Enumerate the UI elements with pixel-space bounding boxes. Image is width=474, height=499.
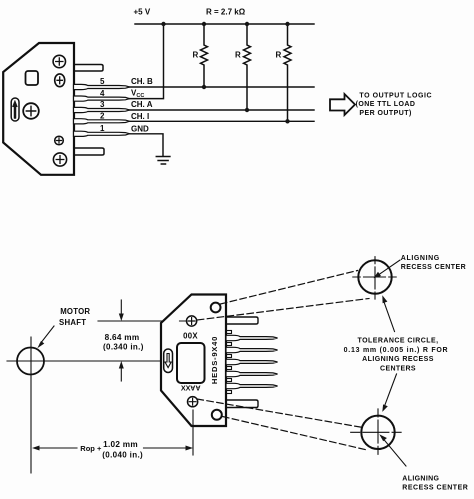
arrow: bottom aligning label to center (383, 439, 406, 467)
dashed leader C (197, 399, 363, 428)
center screw circle (23, 103, 39, 119)
svg-text:5: 5 (100, 77, 105, 86)
svg-text:R: R (193, 51, 199, 60)
code window rounded rect (177, 343, 205, 383)
svg-text:CH. B: CH. B (131, 77, 153, 86)
wire GND (129, 134, 163, 156)
pin 4 (74, 96, 130, 101)
dim Rop line right (146, 447, 185, 449)
motor shaft circle (17, 348, 44, 375)
junction R3 top / rail (285, 22, 289, 26)
module index square (26, 71, 39, 85)
wire CH.I (129, 120, 314, 122)
pin a (226, 335, 278, 340)
svg-text:PER OUTPUT): PER OUTPUT) (359, 110, 411, 117)
tolerance circle top (358, 260, 391, 293)
ground (156, 157, 170, 165)
screw hole bottom1 (55, 136, 64, 145)
shaft centerline vertical (30, 337, 32, 473)
arrow: top aligning label to center (379, 260, 400, 275)
tolerance circle bottom (361, 416, 394, 449)
flat pin bottom (226, 400, 258, 408)
svg-text:RECESS CENTER: RECESS CENTER (402, 484, 468, 491)
svg-text:CENTERS: CENTERS (380, 365, 416, 372)
junction R3 / CH.I (285, 119, 289, 123)
wire CH.B (129, 86, 314, 88)
svg-text:(0.040 in.): (0.040 in.) (102, 451, 143, 460)
pin 1 (74, 131, 130, 136)
recess + bottom (188, 397, 198, 407)
svg-text:TO OUTPUT LOGIC: TO OUTPUT LOGIC (359, 92, 432, 99)
shaft centerline horizontal (7, 360, 160, 362)
svg-text:R = 2.7 kΩ: R = 2.7 kΩ (206, 8, 246, 17)
svg-text:(ONE TTL LOAD: (ONE TTL LOAD (356, 101, 416, 108)
recess + top (187, 316, 197, 326)
svg-text:1.02 mm: 1.02 mm (103, 440, 138, 449)
svg-text:R: R (235, 51, 241, 60)
pin 2 (74, 119, 130, 124)
arrow: tolerance text up (384, 302, 395, 332)
dashed leader D (223, 417, 368, 451)
screw hole circle top (211, 303, 221, 313)
arrow: tolerance text down (385, 374, 397, 406)
svg-text:VCC: VCC (131, 89, 144, 100)
pin 3 (74, 107, 130, 112)
screw hole bottom2 (53, 153, 66, 166)
dim Rop right extension (192, 410, 194, 455)
svg-text:ALIGNING: ALIGNING (401, 255, 440, 262)
junction R2 top / rail (245, 22, 249, 26)
dashed leader B (221, 271, 358, 305)
svg-text:4: 4 (100, 89, 105, 98)
aperture slot (164, 349, 173, 373)
pin e (226, 383, 278, 388)
svg-text:ALIGNING RECESS: ALIGNING RECESS (362, 356, 434, 363)
dim 8.64 top arrow (120, 300, 122, 317)
pin c (226, 359, 278, 364)
dim 8.64 extension line (98, 320, 187, 322)
svg-text:R: R (276, 51, 282, 60)
screw hole circle bottom (212, 410, 222, 420)
module body (mechanical view) (161, 295, 226, 427)
svg-text:HEDS-9X40: HEDS-9X40 (210, 336, 219, 384)
junction R1 top / rail (202, 22, 206, 26)
mounting tab pin top (74, 65, 103, 72)
svg-text:AA: AA (190, 383, 200, 392)
pin row stubs (226, 331, 232, 394)
svg-text:TOLERANCE CIRCLE,: TOLERANCE CIRCLE, (357, 338, 438, 345)
svg-text:0.13 mm (0.005 in.) R FOR: 0.13 mm (0.005 in.) R FOR (344, 347, 449, 354)
junction Vcc/+5V rail (161, 22, 165, 26)
dim Rop line left (40, 447, 146, 449)
svg-text:3: 3 (100, 100, 105, 109)
svg-text:8.64 mm: 8.64 mm (105, 333, 140, 342)
screw hole top1 (53, 55, 65, 67)
svg-text:GND: GND (131, 124, 149, 133)
wire Vcc (129, 24, 164, 99)
svg-text:+5 V: +5 V (134, 8, 151, 17)
junction R1 / CH.B (202, 85, 206, 89)
encoder module body (schematic view) (3, 43, 74, 175)
slot arrow (13, 101, 18, 119)
svg-text:CH. A: CH. A (131, 100, 153, 109)
svg-text:XX: XX (181, 384, 191, 393)
svg-text:SHAFT: SHAFT (59, 318, 86, 327)
output block arrow (330, 94, 355, 115)
wire CH.A (129, 109, 314, 111)
junction R2 / CH.A (245, 108, 249, 112)
dim 8.64 bottom arrow (120, 365, 122, 381)
pin d (226, 371, 278, 376)
svg-text:MOTOR: MOTOR (60, 307, 90, 316)
svg-text:CH. I: CH. I (131, 112, 149, 121)
svg-text:Rop +: Rop + (80, 444, 102, 453)
+5V rail (135, 23, 314, 25)
svg-text:RECESS CENTER: RECESS CENTER (401, 264, 466, 271)
resistor R3 (284, 24, 291, 121)
dashed leader A (197, 299, 369, 321)
svg-text:00X: 00X (183, 331, 198, 340)
flat pin top (226, 317, 258, 324)
module aperture slot (11, 98, 19, 121)
svg-text:(0.340 in.): (0.340 in.) (103, 343, 144, 352)
slot down arrow (165, 354, 171, 368)
svg-text:1: 1 (100, 124, 105, 133)
resistor R2 (244, 24, 251, 110)
svg-text:2: 2 (100, 111, 105, 120)
screw hole top2 (55, 74, 65, 87)
mounting tab pin bottom (74, 148, 104, 155)
svg-text:ALIGNING: ALIGNING (402, 475, 439, 482)
pin b (226, 347, 278, 352)
motor shaft leader arrow (40, 326, 54, 344)
resistor R1 (201, 24, 208, 87)
pin 5 (74, 84, 130, 89)
